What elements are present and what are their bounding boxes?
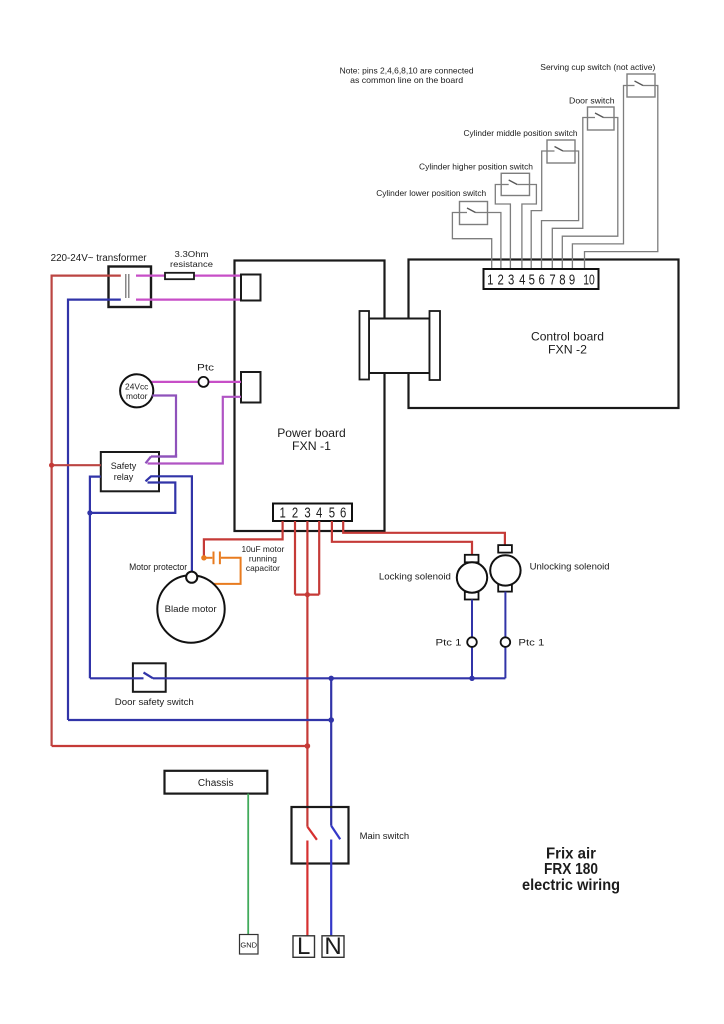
safety relay left pin blue wire xyxy=(90,477,101,679)
board-to-board connector left bar xyxy=(360,311,370,380)
svg-text:Ptc 1: Ptc 1 xyxy=(518,637,544,648)
Ptc thermistor RT1 xyxy=(199,377,209,387)
safety relay bottom blue blade to motor protector xyxy=(146,476,192,572)
wire pin5 to locking solenoid xyxy=(332,521,472,555)
svg-text:Unlocking solenoid: Unlocking solenoid xyxy=(530,562,610,573)
wire serving cup switch right to pin 10 xyxy=(585,86,658,270)
N terminal xyxy=(322,933,344,960)
svg-text:5: 5 xyxy=(529,272,535,289)
motor protector F1 xyxy=(186,572,197,583)
svg-text:Blade motor: Blade motor xyxy=(165,604,217,614)
door switch SW4 xyxy=(569,96,615,130)
junction blue dot bottom rail xyxy=(328,717,334,723)
blade motor M2 xyxy=(157,575,224,642)
wire pin3 down to main switch xyxy=(306,521,308,827)
cylinder lower position switch SW1 xyxy=(376,188,487,225)
junction red dot pins 2-3-4 xyxy=(305,592,310,597)
svg-text:5: 5 xyxy=(329,505,335,522)
24Vcc motor M1 xyxy=(120,374,153,407)
locking solenoid L1 xyxy=(379,555,487,600)
wire blue Ptc 1 down to rail corner xyxy=(504,647,506,678)
svg-text:Cylinder higher position switc: Cylinder higher position switch xyxy=(419,161,533,171)
svg-text:2: 2 xyxy=(292,505,298,522)
cylinder higher position switch SW2 xyxy=(419,161,533,195)
svg-text:4: 4 xyxy=(316,505,322,522)
wire purple motor bottom to safety relay blade xyxy=(151,396,176,457)
resistor R1 3.3Ohm label xyxy=(170,249,213,269)
control board FXN-2 xyxy=(409,260,679,409)
junction blue dot locking xyxy=(469,676,474,681)
ground terminal GND xyxy=(240,935,259,955)
svg-text:Door safety switch: Door safety switch xyxy=(115,697,194,708)
safety relay K1 xyxy=(101,452,159,491)
wire pin1 to capacitor junction xyxy=(204,521,283,558)
board-to-board connector middle block xyxy=(369,319,430,374)
L terminal xyxy=(293,933,315,960)
svg-text:Ptc 1: Ptc 1 xyxy=(436,637,462,648)
wire blue primary N into transformer xyxy=(68,300,121,720)
power board connector B (ptc input) xyxy=(241,372,261,403)
svg-text:7: 7 xyxy=(549,272,555,289)
svg-text:Door switch: Door switch xyxy=(569,96,615,106)
power board label xyxy=(277,426,346,453)
note text: pins note xyxy=(340,65,474,84)
svg-text:Control board: Control board xyxy=(531,330,604,344)
junction orange dot xyxy=(201,555,206,560)
wire cylinder lower switch right to pin 2 xyxy=(488,213,501,270)
safety relay bottom fixed contact wire down-left xyxy=(90,483,175,513)
wire magenta secondary top to resistor and power board xyxy=(136,275,241,277)
svg-text:GND: GND xyxy=(240,941,257,950)
svg-text:L: L xyxy=(297,933,310,960)
wire green earth xyxy=(247,794,249,935)
svg-text:8: 8 xyxy=(559,272,565,289)
terminal strip TB2 pins 1-10 on control board xyxy=(484,269,599,289)
gray switch wiring group xyxy=(452,86,657,270)
svg-text:10: 10 xyxy=(583,272,595,289)
main switch SW7 xyxy=(292,807,410,864)
svg-text:3.3Ohm: 3.3Ohm xyxy=(175,249,209,259)
wire blue Ptc 1 to bottom blue rail xyxy=(471,647,473,678)
svg-text:6: 6 xyxy=(340,505,346,522)
wire blue branch down to N rail xyxy=(330,678,332,826)
wire pin4 down xyxy=(318,521,320,595)
control board label xyxy=(531,330,604,357)
capacitor C1 circuit orange xyxy=(204,552,241,584)
wire cylinder higher switch left to pin 3 xyxy=(495,185,510,270)
svg-text:3: 3 xyxy=(508,272,514,289)
wire blue unlocking solenoid to Ptc 1 xyxy=(504,592,506,638)
Ptc 1 thermistor RT2 xyxy=(467,637,477,647)
svg-text:electric wiring: electric wiring xyxy=(522,877,620,894)
junction blue dot main switch branch xyxy=(329,676,334,681)
wire red bottom rail to main switch xyxy=(52,745,308,747)
svg-text:Cylinder middle position switc: Cylinder middle position switch xyxy=(464,128,578,138)
wire right plate to blade motor xyxy=(209,558,241,584)
cylinder middle position switch SW3 xyxy=(464,128,578,163)
svg-text:Power board: Power board xyxy=(277,426,346,440)
wire purple connector B to safety relay fixed contact xyxy=(148,397,242,464)
svg-text:9: 9 xyxy=(569,272,575,289)
wire red feed to safety relay xyxy=(52,464,101,466)
wire cylinder lower switch left to pin 1 xyxy=(452,213,491,270)
svg-text:Main switch: Main switch xyxy=(360,831,410,842)
svg-text:running: running xyxy=(249,554,277,564)
wire serving cup switch left to pin 9 xyxy=(572,86,627,270)
transformer T1 xyxy=(51,253,151,307)
wire pin6 to unlocking solenoid xyxy=(343,521,505,545)
capacitor label xyxy=(241,544,284,573)
power board FXN-1 xyxy=(235,261,385,532)
wire door switch right to pin 8 xyxy=(562,118,618,270)
svg-text:Ptc: Ptc xyxy=(197,363,214,374)
svg-text:Chassis: Chassis xyxy=(198,778,234,789)
wire junction to left plate xyxy=(204,557,212,559)
svg-text:2: 2 xyxy=(498,272,504,289)
serving cup switch SW5 xyxy=(540,62,655,97)
junction red dot bottom rail xyxy=(305,743,311,749)
svg-text:Motor protector: Motor protector xyxy=(129,562,187,572)
power board connector A (transformer input) xyxy=(241,275,261,301)
svg-text:FRX 180: FRX 180 xyxy=(544,861,598,878)
svg-text:FXN -1: FXN -1 xyxy=(292,439,331,453)
svg-text:capacitor: capacitor xyxy=(246,563,280,573)
door safety switch SW6 xyxy=(115,663,194,708)
main switch blue blade xyxy=(331,826,340,839)
junction red dot on left rail xyxy=(49,463,54,468)
Ptc 1 thermistor RT3 xyxy=(501,637,511,647)
svg-text:Cylinder lower position switch: Cylinder lower position switch xyxy=(376,188,486,198)
chassis xyxy=(165,771,268,794)
wire pin2 down xyxy=(294,521,296,595)
wire magenta Ptc line: motor to Ptc to connector B xyxy=(151,381,199,383)
capacitor right plate xyxy=(219,552,221,565)
svg-text:1: 1 xyxy=(487,272,493,289)
svg-text:Locking solenoid: Locking solenoid xyxy=(379,571,451,582)
svg-text:Safety: Safety xyxy=(111,461,137,471)
svg-text:motor: motor xyxy=(126,391,148,401)
wire red main switch to L terminal xyxy=(306,841,308,936)
junction blue dot left xyxy=(87,510,92,515)
terminal strip TB1 pins 1-6 on power board xyxy=(273,504,352,522)
wire door switch left to pin 7 xyxy=(552,118,587,270)
wire blue locking solenoid to Ptc 1 xyxy=(471,600,473,638)
svg-text:6: 6 xyxy=(539,272,545,289)
wire cylinder middle switch right to pin 6 xyxy=(542,151,579,269)
wire cylinder higher switch right to pin 4 xyxy=(522,185,537,270)
svg-text:220-24V~ transformer: 220-24V~ transformer xyxy=(51,253,148,264)
red wires from power board TB1 xyxy=(52,521,505,827)
unlocking solenoid L2 xyxy=(490,545,609,592)
capacitor left plate xyxy=(213,552,215,565)
safety relay top switch redraw over box xyxy=(146,454,177,464)
title Frix air FRX 180 electric wiring xyxy=(522,846,620,895)
svg-text:Serving cup switch (not active: Serving cup switch (not active) xyxy=(540,62,655,72)
wire bridge pins 2-4 xyxy=(295,593,319,595)
wire magenta secondary bottom to power board xyxy=(136,299,241,301)
svg-text:4: 4 xyxy=(519,272,525,289)
safety relay top blade contact xyxy=(146,457,152,464)
resistor R1 body xyxy=(165,273,194,279)
wire blue bottom rail xyxy=(68,719,331,721)
svg-text:as common line on the board: as common line on the board xyxy=(350,75,463,85)
svg-text:10uF motor: 10uF motor xyxy=(241,544,284,554)
svg-text:1: 1 xyxy=(279,505,285,522)
main switch red blade xyxy=(307,827,317,840)
wire cylinder middle switch left to pin 5 xyxy=(531,151,547,269)
svg-text:resistance: resistance xyxy=(170,259,213,269)
wire blue rail through door safety switch to solenoids xyxy=(90,673,506,679)
svg-text:FXN -2: FXN -2 xyxy=(548,343,587,357)
wire blue main switch to N terminal xyxy=(330,840,332,936)
wire red primary L into transformer xyxy=(52,276,121,746)
svg-text:N: N xyxy=(324,933,341,960)
svg-text:relay: relay xyxy=(114,472,134,482)
board-to-board connector right bar xyxy=(430,311,441,380)
svg-text:3: 3 xyxy=(304,505,310,522)
